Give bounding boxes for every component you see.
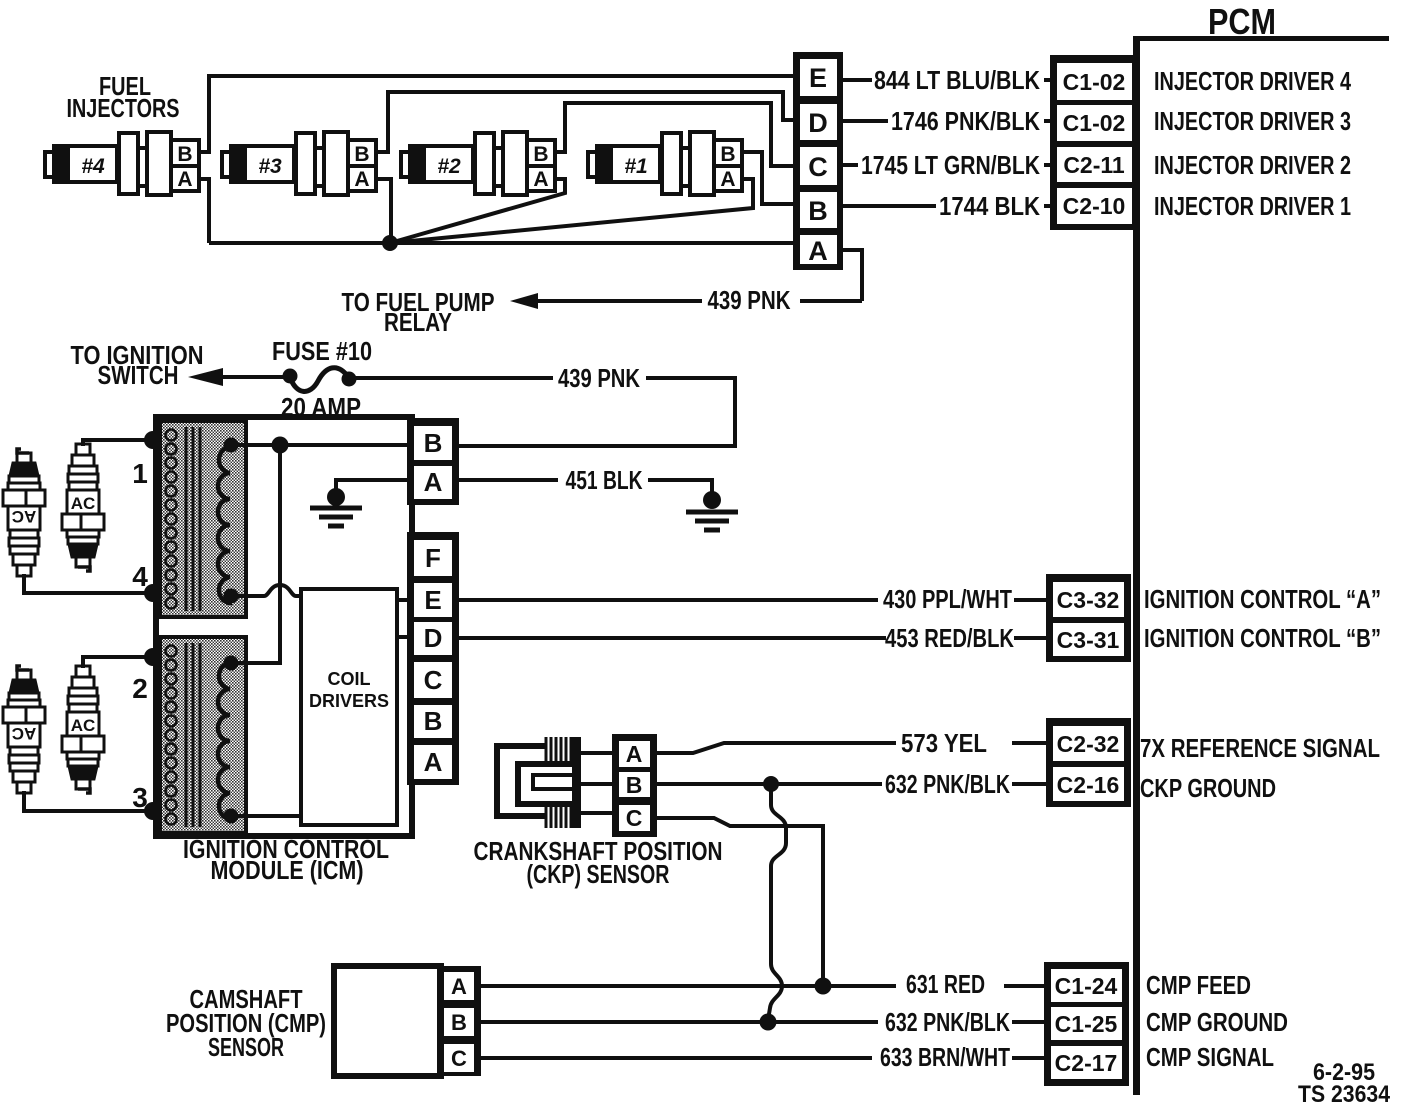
wire CMP B to C1-25	[481, 1020, 1044, 1024]
svg-text:CMP SIGNAL: CMP SIGNAL	[1146, 1042, 1274, 1072]
svg-text:INJECTOR DRIVER 2: INJECTOR DRIVER 2	[1154, 150, 1351, 180]
wire pin C to C2-11	[843, 163, 1058, 167]
svg-text:573 YEL: 573 YEL	[901, 728, 987, 758]
injector #4	[45, 132, 199, 195]
spark plug 1	[62, 444, 104, 571]
svg-text:B: B	[424, 428, 443, 458]
junction wire to pin B	[272, 437, 289, 454]
ICM coil 2	[160, 637, 246, 833]
wire ICM D to C3-31	[459, 636, 1046, 640]
wire ICM E to C3-32	[459, 598, 1046, 602]
wire pin B to C2-10	[843, 204, 1058, 208]
ignition control module ICM box	[156, 417, 412, 836]
ICM terminal dot 4	[144, 584, 162, 602]
svg-text:844 LT BLU/BLK: 844 LT BLU/BLK	[874, 65, 1040, 95]
CMP connector A B C	[437, 966, 481, 1076]
svg-text:4: 4	[132, 561, 148, 592]
svg-text:INJECTOR DRIVER 1: INJECTOR DRIVER 1	[1154, 191, 1351, 221]
junction CKP ground	[763, 776, 779, 792]
svg-text:C: C	[808, 152, 828, 182]
svg-text:SENSOR: SENSOR	[208, 1032, 284, 1062]
svg-text:E: E	[809, 63, 827, 93]
junction coil2 top	[224, 656, 239, 671]
svg-text:B: B	[424, 706, 443, 736]
svg-text:D: D	[424, 623, 443, 653]
wire injector4 B to pin E	[199, 76, 795, 152]
ICM terminal dot 2	[144, 648, 162, 666]
wire CKP A to C2-32	[657, 743, 1046, 753]
svg-text:1745 LT GRN/BLK: 1745 LT GRN/BLK	[861, 150, 1040, 180]
svg-text:631 RED: 631 RED	[906, 969, 985, 999]
svg-text:C2-32: C2-32	[1057, 731, 1120, 757]
ICM terminal dot 3	[144, 802, 162, 820]
wire injector3 B to pin D	[376, 92, 795, 152]
wire plug to ICM terminal 2	[83, 657, 152, 668]
svg-text:INJECTOR DRIVER 3: INJECTOR DRIVER 3	[1154, 106, 1351, 136]
wire plug to ICM terminal 3	[24, 791, 152, 811]
wire injector4 A down	[199, 179, 209, 243]
wire injector1 A diagonal	[390, 179, 753, 243]
svg-text:DRIVERS: DRIVERS	[309, 691, 389, 711]
wire coil2 bottom to coil drivers	[231, 814, 301, 818]
PCM boundary line	[1133, 36, 1389, 1095]
wire CMP C to C2-17	[481, 1056, 1044, 1060]
wire injector2 B to pin C	[555, 103, 795, 166]
svg-text:TS 23634: TS 23634	[1298, 1081, 1391, 1108]
svg-text:INJECTOR DRIVER 4: INJECTOR DRIVER 4	[1154, 66, 1351, 96]
wire coil1 bottom to coil drivers (hop)	[231, 585, 301, 596]
svg-text:COIL: COIL	[328, 669, 371, 689]
svg-text:439 PNK: 439 PNK	[558, 363, 640, 393]
svg-text:C: C	[451, 1046, 467, 1071]
internal ground symbol	[327, 488, 345, 506]
PCM connector C1-02 C1-02 C2-11 C2-10	[1050, 55, 1139, 230]
CKP sensor core	[497, 737, 612, 828]
svg-text:439 PNK: 439 PNK	[708, 285, 791, 315]
wire bottom bus to pin A	[209, 241, 795, 245]
svg-text:2: 2	[132, 673, 148, 704]
svg-text:C1-24: C1-24	[1055, 973, 1118, 999]
svg-text:E: E	[424, 585, 441, 615]
wire coil drivers to ICM pin D	[397, 635, 407, 639]
svg-text:C3-32: C3-32	[1057, 587, 1120, 613]
wire CKP ground down to CMP ground (with hops)	[768, 784, 786, 1020]
PCM connector C2-32 C2-16	[1046, 718, 1131, 807]
svg-text:C3-31: C3-31	[1057, 627, 1120, 653]
junction CMP feed	[815, 978, 832, 995]
spark plug 2	[62, 666, 104, 793]
ICM connector F E D C B A	[407, 532, 459, 785]
svg-text:B: B	[808, 196, 828, 226]
wire plug to ICM terminal 4	[24, 574, 152, 593]
wire injector2 A diagonal	[390, 179, 565, 243]
svg-text:C: C	[424, 665, 443, 695]
injector #2	[401, 132, 555, 195]
spark plug 4 (inverted)	[3, 449, 45, 576]
wire injector1 B to pin B	[742, 152, 795, 204]
svg-text:C1-02: C1-02	[1063, 69, 1126, 95]
svg-text:C2-17: C2-17	[1055, 1050, 1118, 1076]
svg-text:C1-25: C1-25	[1055, 1011, 1118, 1037]
svg-text:F: F	[425, 543, 441, 573]
wire coil1 top to ICM pin B	[231, 443, 407, 447]
svg-text:A: A	[808, 236, 828, 266]
svg-text:C2-16: C2-16	[1057, 772, 1120, 798]
PCM connector C3-32 C3-31	[1046, 574, 1131, 662]
wire pin D to C1-02	[843, 119, 1058, 123]
svg-text:(CKP) SENSOR: (CKP) SENSOR	[527, 859, 670, 889]
svg-text:632 PNK/BLK: 632 PNK/BLK	[885, 769, 1010, 799]
svg-text:IGNITION CONTROL “A”: IGNITION CONTROL “A”	[1144, 584, 1381, 614]
ICM terminal dot 1	[144, 431, 162, 449]
svg-text:A: A	[451, 974, 467, 999]
svg-text:7X REFERENCE SIGNAL: 7X REFERENCE SIGNAL	[1140, 733, 1380, 763]
svg-text:A: A	[626, 741, 643, 767]
svg-text:#2: #2	[437, 155, 461, 178]
svg-text:#4: #4	[81, 155, 105, 178]
svg-text:#1: #1	[624, 155, 647, 178]
svg-text:B: B	[626, 772, 643, 798]
junction coil1 bottom	[224, 589, 239, 604]
wire CKP core to connector	[581, 753, 612, 813]
svg-text:1746 PNK/BLK: 1746 PNK/BLK	[891, 106, 1040, 136]
svg-text:C2-11: C2-11	[1063, 152, 1125, 178]
svg-text:632 PNK/BLK: 632 PNK/BLK	[885, 1007, 1010, 1037]
svg-text:451 BLK: 451 BLK	[566, 465, 643, 495]
svg-text:D: D	[808, 108, 828, 138]
wire pin A to fuel pump relay	[536, 250, 862, 301]
wire CMP A to C1-24	[481, 984, 1044, 988]
svg-text:A: A	[424, 747, 443, 777]
svg-text:SWITCH: SWITCH	[98, 360, 179, 390]
svg-text:IGNITION CONTROL “B”: IGNITION CONTROL “B”	[1144, 623, 1381, 653]
svg-text:CMP FEED: CMP FEED	[1146, 970, 1251, 1000]
ICM connector B A	[407, 418, 459, 505]
svg-text:FUSE #10: FUSE #10	[272, 336, 372, 366]
CKP connector A B C	[612, 734, 657, 837]
CMP sensor box	[334, 966, 441, 1076]
svg-text:1: 1	[132, 458, 148, 489]
svg-text:INJECTORS: INJECTORS	[67, 93, 180, 123]
ICM coil 1	[160, 421, 246, 617]
wire junction down to coil2 top	[231, 445, 280, 663]
injector #1	[588, 132, 742, 195]
wire fuse to ICM pin B	[349, 378, 735, 446]
junction CMP ground	[760, 1014, 777, 1031]
svg-text:CKP GROUND: CKP GROUND	[1140, 773, 1276, 803]
svg-text:C2-10: C2-10	[1063, 193, 1126, 219]
svg-text:RELAY: RELAY	[384, 307, 452, 337]
svg-text:633 BRN/WHT: 633 BRN/WHT	[880, 1042, 1010, 1072]
to fuel pump relay arrow	[510, 293, 538, 309]
svg-text:1744 BLK: 1744 BLK	[939, 191, 1040, 221]
svg-text:430 PPL/WHT: 430 PPL/WHT	[883, 584, 1012, 614]
svg-text:C: C	[626, 805, 643, 831]
svg-text:PCM: PCM	[1208, 1, 1276, 42]
wire CKP C down to CMP feed junction	[657, 818, 823, 981]
svg-text:MODULE (ICM): MODULE (ICM)	[211, 855, 364, 885]
to ignition switch arrow	[188, 368, 223, 386]
injector harness connector E D C B A	[793, 52, 843, 270]
injector #3	[222, 132, 376, 195]
svg-text:CMP GROUND: CMP GROUND	[1146, 1007, 1288, 1037]
PCM connector C1-24 C1-25 C2-17	[1044, 962, 1129, 1086]
junction coil2 bottom	[224, 809, 239, 824]
junction coil1 top	[224, 438, 239, 453]
wire CKP B to C2-16	[657, 782, 1046, 786]
svg-text:3: 3	[132, 782, 148, 813]
svg-text:B: B	[451, 1010, 467, 1035]
wire pin E to C1-02	[843, 78, 1058, 82]
svg-text:A: A	[424, 467, 443, 497]
wire injector3 A down	[376, 179, 391, 241]
svg-text:453 RED/BLK: 453 RED/BLK	[885, 623, 1014, 653]
external ground symbol	[703, 491, 721, 509]
svg-text:#3: #3	[258, 155, 282, 178]
svg-text:C1-02: C1-02	[1063, 110, 1126, 136]
wire 451 BLK to ground	[459, 480, 712, 500]
wire coil drivers to ICM pin E	[397, 598, 407, 602]
junction injector ground bus	[382, 235, 398, 251]
COIL DRIVERS box	[301, 589, 397, 825]
wire ICM pin A to internal ground	[336, 480, 407, 497]
spark plug 3 (inverted)	[3, 666, 45, 793]
wire plug to ICM terminal 1	[83, 440, 152, 446]
